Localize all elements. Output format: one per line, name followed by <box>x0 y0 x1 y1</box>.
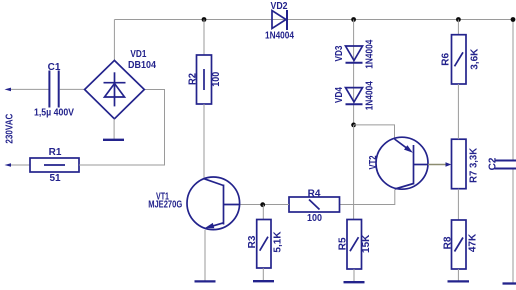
VT2 emitter <box>395 139 409 149</box>
junction dot at rail right corner <box>511 17 516 22</box>
svg-text:3,6K: 3,6K <box>469 48 480 70</box>
transistor VT2 <box>368 137 428 189</box>
svg-text:R2: R2 <box>188 73 199 85</box>
capacitor C1 <box>34 62 74 119</box>
svg-text:15K: 15K <box>361 234 372 253</box>
ground under C2 <box>503 282 516 284</box>
wire: bridge minus output stub <box>113 119 115 139</box>
VT1 base <box>224 204 240 206</box>
svg-text:1N4004: 1N4004 <box>265 31 294 42</box>
junction dot at VD3 top on rail <box>351 17 356 22</box>
svg-text:230VAC: 230VAC <box>4 114 15 144</box>
svg-text:R4: R4 <box>308 188 321 199</box>
wire: node down to R3 <box>262 205 264 220</box>
resistor R3 <box>247 220 283 269</box>
svg-text:VD4: VD4 <box>334 87 345 103</box>
resistor R2 <box>188 55 223 104</box>
wire: top supply rail <box>115 19 514 21</box>
svg-text:C2: C2 <box>487 157 498 170</box>
resistor R8 <box>443 220 479 269</box>
svg-text:VD1: VD1 <box>130 49 146 60</box>
wire: bridge plus output up to rail <box>113 20 115 61</box>
VT1 emitter <box>210 223 224 227</box>
resistor R1 <box>30 147 79 184</box>
svg-text:1,5µ 400V: 1,5µ 400V <box>34 108 74 119</box>
ground under R8 <box>448 280 470 282</box>
svg-text:MJE270G: MJE270G <box>148 199 182 210</box>
svg-text:100: 100 <box>211 71 222 86</box>
AC input terminal arrow (top) <box>5 88 12 92</box>
svg-text:5,1K: 5,1K <box>272 231 283 253</box>
svg-text:C1: C1 <box>48 62 61 73</box>
capacitor C2 <box>487 157 516 170</box>
wire: VT1 emitter down to ground <box>204 230 206 281</box>
svg-text:R6: R6 <box>440 52 451 65</box>
wire: VD4 node down to R5 <box>353 125 355 220</box>
svg-text:1N4004: 1N4004 <box>365 81 376 110</box>
wire: R1 to bridge right vertex <box>79 90 165 166</box>
svg-text:DB104: DB104 <box>128 60 156 71</box>
wire: R6 bottom to R7 top <box>457 84 459 139</box>
ground under bridge VD1 <box>103 139 124 141</box>
bridge rectifier VD1 <box>85 49 157 119</box>
wire: rail to R2 top <box>203 20 205 56</box>
wire: VT2 collector down and left to R4 <box>340 189 395 204</box>
junction dot at VD4 cathode node <box>351 123 356 128</box>
junction dot at R6 top on rail <box>456 17 461 22</box>
wire: VT2 base to R7 wiper <box>428 164 447 166</box>
wire: rail to R6 top <box>457 20 459 35</box>
wire: C2 bottom down to ground <box>512 169 514 283</box>
svg-text:R3: R3 <box>247 235 258 248</box>
VT2 base <box>414 164 429 166</box>
junction dot at R2 top on rail <box>202 17 207 22</box>
transistor VT1 <box>148 177 240 230</box>
R7 wiper arrow <box>446 162 452 166</box>
wire: R8 bottom stub <box>457 269 459 281</box>
resistor R4 <box>289 188 340 224</box>
wire: C1 to bridge left vertex <box>60 88 85 90</box>
resistor R6 <box>440 35 480 84</box>
svg-text:100: 100 <box>307 213 322 224</box>
ground under R3 <box>253 280 274 282</box>
svg-text:VT2: VT2 <box>368 155 379 169</box>
wire: R5 bottom stub <box>353 269 355 282</box>
potentiometer R7 <box>452 139 480 189</box>
svg-text:VD2: VD2 <box>271 1 288 12</box>
wire: R7 bottom to R8 top <box>457 189 459 220</box>
VT2 collector <box>395 184 414 190</box>
diode VD4 <box>334 81 376 110</box>
svg-text:R7 3,3K: R7 3,3K <box>468 147 479 183</box>
resistor R5 <box>338 220 373 270</box>
diode VD3 <box>334 39 376 68</box>
svg-text:R8: R8 <box>443 236 454 249</box>
junction dot at VT1 base node <box>260 202 265 207</box>
svg-text:47K: 47K <box>467 233 478 252</box>
wire: rail through VD3 VD4 chain <box>353 20 355 125</box>
wire: R3 bottom stub <box>262 268 264 281</box>
wire: AC input line to R1 <box>11 164 30 166</box>
VT1 collector <box>204 179 223 186</box>
svg-text:R5: R5 <box>338 237 349 250</box>
diode VD2 <box>265 1 294 42</box>
svg-text:R1: R1 <box>49 147 62 158</box>
wire: right edge rail down to C2 top <box>512 20 514 161</box>
svg-text:51: 51 <box>49 173 61 184</box>
svg-text:1N4004: 1N4004 <box>365 39 376 68</box>
wire: VT1 base to R4 <box>240 204 289 206</box>
ground under R5 <box>344 281 365 283</box>
wire: VD4 node to VT2 emitter <box>354 125 395 139</box>
wire: AC input line to C1 <box>11 88 49 90</box>
ground under VT1 <box>195 280 216 282</box>
svg-text:VD3: VD3 <box>334 45 345 61</box>
AC input terminal arrow (bottom) <box>5 163 12 167</box>
wire: R2 bottom to VT1 collector <box>203 104 205 179</box>
